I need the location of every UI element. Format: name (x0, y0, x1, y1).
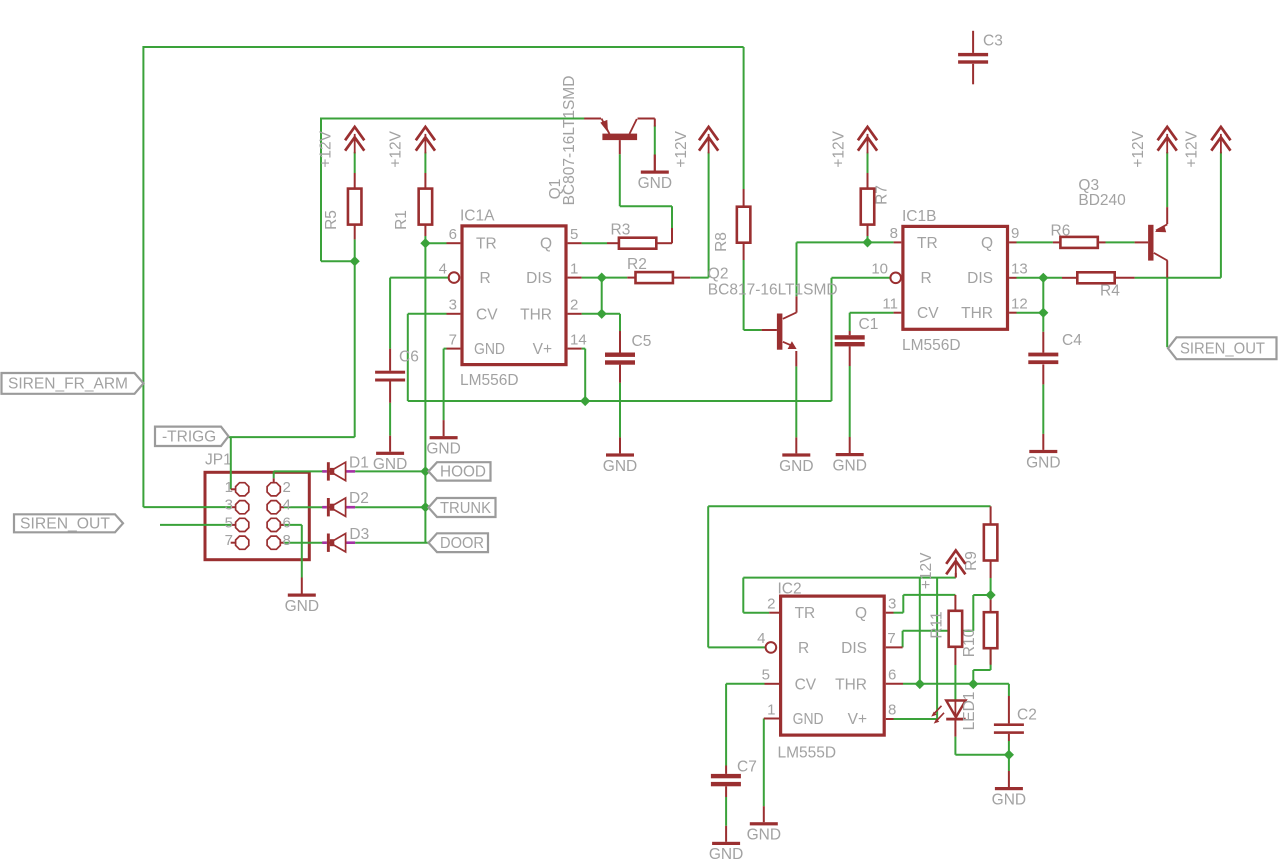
wire (1135, 241, 1149, 243)
wire (654, 119, 656, 127)
wire (743, 260, 745, 330)
svg-text:C2: C2 (1017, 707, 1037, 724)
wire (886, 612, 894, 614)
svg-text:1: 1 (767, 701, 775, 718)
wire (142, 46, 144, 507)
wire (867, 173, 869, 189)
wire (743, 612, 769, 614)
svg-text:C3: C3 (983, 33, 1003, 50)
wire (280, 506, 284, 508)
node junction (350, 256, 360, 266)
net label SIREN_OUT (1168, 337, 1277, 359)
wire (1042, 313, 1044, 332)
svg-text:LM556D: LM556D (902, 337, 961, 354)
wire (903, 630, 974, 632)
+12V supply (673, 127, 718, 168)
svg-text:BC807-16LT1SMD: BC807-16LT1SMD (561, 76, 578, 206)
svg-text:7: 7 (887, 630, 895, 647)
resistor R6 (1051, 223, 1098, 248)
resistor R9 (963, 525, 997, 571)
svg-text:V+: V+ (533, 341, 552, 358)
svg-text:R1: R1 (393, 210, 410, 230)
svg-text:GND: GND (285, 598, 319, 615)
wire (673, 277, 691, 279)
svg-text:R9: R9 (963, 551, 980, 571)
svg-text:8: 8 (890, 225, 898, 242)
wire (743, 577, 956, 579)
wire (990, 506, 992, 524)
svg-text:HOOD: HOOD (440, 464, 486, 481)
wire (355, 542, 428, 544)
wire (795, 351, 797, 366)
wire (584, 349, 586, 401)
wire (849, 331, 851, 335)
node junction (597, 309, 607, 319)
wire (954, 665, 956, 701)
ground (638, 155, 672, 192)
wire (849, 347, 851, 367)
wire (990, 649, 992, 665)
wire (1053, 241, 1061, 243)
wire (1017, 277, 1063, 279)
svg-text:6: 6 (888, 667, 896, 684)
wire (568, 277, 582, 279)
wire (990, 595, 992, 612)
wire (671, 206, 673, 229)
wire (725, 786, 727, 797)
wire (797, 241, 894, 243)
wire (320, 118, 322, 262)
svg-text:+12V: +12V (1130, 130, 1147, 167)
wire (389, 349, 391, 371)
wire (424, 173, 426, 189)
svg-text:C4: C4 (1062, 332, 1082, 349)
svg-text:IC1A: IC1A (460, 208, 495, 225)
wire (280, 542, 284, 544)
wire (743, 47, 745, 189)
wire (424, 152, 426, 173)
wire (795, 366, 797, 437)
svg-text:R2: R2 (627, 256, 647, 273)
resistor R8 (713, 207, 750, 252)
wire (1042, 332, 1044, 353)
svg-text:GND: GND (793, 711, 824, 728)
wire (232, 506, 236, 508)
svg-text:SIREN_OUT: SIREN_OUT (20, 516, 111, 533)
svg-text:GND: GND (1026, 454, 1060, 471)
wire (972, 595, 974, 631)
wire (972, 670, 974, 684)
svg-text:14: 14 (570, 332, 587, 349)
svg-text:C5: C5 (632, 333, 652, 350)
svg-text:IC1B: IC1B (902, 208, 936, 225)
wire (619, 331, 621, 353)
ground (747, 806, 781, 843)
ground (603, 437, 637, 474)
wire (1009, 312, 1016, 314)
wire (231, 542, 236, 544)
ground (779, 437, 813, 474)
wire (607, 242, 619, 244)
svg-text:DOOR: DOOR (440, 535, 484, 552)
wire (619, 383, 621, 438)
wire (584, 118, 601, 120)
svg-text:V+: V+ (848, 711, 867, 728)
svg-text:GND: GND (747, 827, 781, 844)
wire (355, 470, 428, 472)
node junction (580, 396, 590, 406)
connector JP1 box (205, 452, 309, 560)
svg-text:4: 4 (439, 261, 447, 278)
wire (281, 524, 302, 526)
wire (280, 524, 284, 526)
wire (708, 505, 990, 507)
resistor R2 (627, 256, 673, 283)
wire (954, 720, 956, 737)
wire (769, 612, 779, 614)
wire (160, 524, 232, 526)
wire (619, 314, 621, 331)
svg-text:R: R (480, 270, 491, 287)
wire (894, 718, 938, 720)
svg-text:GND: GND (638, 175, 672, 192)
wire (354, 225, 356, 240)
wire (143, 506, 231, 508)
node junction (420, 238, 430, 248)
svg-text:Q: Q (540, 236, 552, 253)
svg-text:GND: GND (779, 458, 813, 475)
svg-text:+12V: +12V (1184, 130, 1201, 167)
svg-text:R6: R6 (1051, 223, 1071, 240)
wire (273, 471, 275, 478)
wire (230, 437, 232, 489)
svg-text:SIREN_OUT: SIREN_OUT (1180, 341, 1266, 358)
wire (1042, 278, 1044, 313)
wire (354, 173, 356, 189)
wire (886, 683, 903, 685)
wire (744, 329, 762, 331)
wire (990, 649, 992, 670)
svg-text:IC2: IC2 (778, 581, 802, 598)
wire (627, 277, 636, 279)
wire (725, 797, 727, 826)
+12V supply (831, 127, 878, 168)
svg-text:+12V: +12V (673, 130, 690, 167)
svg-text:TR: TR (795, 605, 816, 622)
svg-text:3: 3 (888, 596, 896, 613)
capacitor C6 (375, 349, 419, 382)
capacitor C4 (1028, 332, 1082, 364)
wire (1106, 241, 1135, 243)
wire (708, 646, 765, 648)
svg-text:C7: C7 (737, 759, 757, 776)
svg-text:6: 6 (283, 514, 291, 531)
svg-text:LM556D: LM556D (460, 372, 519, 389)
+12V supply (1184, 127, 1231, 168)
svg-text:R3: R3 (611, 222, 631, 239)
wire (354, 261, 356, 437)
wire (764, 718, 779, 720)
wire (1220, 152, 1222, 278)
wire (990, 561, 992, 579)
svg-text:3: 3 (225, 497, 233, 514)
wire (408, 313, 447, 315)
wire (886, 718, 894, 720)
wire (568, 313, 582, 315)
resistor R4 (1077, 272, 1120, 299)
wire (726, 683, 764, 685)
+12V supply (918, 551, 965, 590)
wire (283, 506, 323, 508)
svg-text:R7: R7 (874, 185, 891, 205)
op-amp IC1B pin10 bubble (890, 273, 901, 284)
svg-text:TR: TR (476, 236, 497, 253)
wire (582, 242, 607, 244)
svg-text:3: 3 (449, 297, 457, 314)
svg-text:GND: GND (992, 791, 1026, 808)
wire (1135, 277, 1221, 279)
svg-text:R: R (921, 270, 932, 287)
wire (832, 277, 891, 279)
svg-text:6: 6 (449, 226, 457, 243)
capacitor C5 (605, 333, 651, 365)
wire (1008, 755, 1010, 771)
wire (796, 296, 798, 312)
wire (831, 278, 833, 401)
node junction (1004, 750, 1014, 760)
wire (354, 239, 356, 261)
svg-text:LED1: LED1 (961, 692, 978, 731)
svg-text:13: 13 (1011, 261, 1028, 278)
transistor Q3 (1078, 177, 1167, 261)
node junction (420, 466, 430, 476)
wire (903, 594, 955, 596)
wire (850, 312, 894, 314)
node junction (1038, 273, 1048, 283)
svg-text:1: 1 (225, 479, 233, 496)
wire (796, 242, 798, 296)
wire (954, 737, 956, 755)
ground (1026, 434, 1060, 471)
wire (1008, 696, 1010, 723)
ground (373, 436, 407, 473)
svg-text:GND: GND (474, 341, 505, 358)
wire (867, 225, 869, 236)
+12V supply (317, 127, 364, 168)
wire (444, 348, 447, 350)
diode D3 (322, 526, 369, 552)
wire (619, 140, 621, 154)
capacitor C7 (711, 759, 757, 787)
svg-text:R8: R8 (713, 232, 730, 252)
wire (656, 242, 672, 244)
capacitor C1 (835, 316, 879, 346)
wire (972, 31, 974, 53)
LED LED1 (931, 692, 978, 731)
wire (954, 595, 956, 611)
transistor Q2 (708, 266, 838, 350)
svg-text:8: 8 (283, 532, 291, 549)
wire (425, 242, 446, 244)
node junction (1038, 308, 1048, 318)
wire (1166, 152, 1168, 207)
timer IC2 (757, 581, 896, 762)
wire (390, 277, 449, 279)
svg-text:+12V: +12V (388, 130, 405, 167)
wire (321, 260, 355, 262)
wire (765, 683, 780, 685)
wire (849, 366, 851, 437)
ground (426, 420, 460, 457)
wire (407, 314, 409, 401)
diode D1 (322, 454, 369, 480)
wire (972, 64, 974, 85)
wire (743, 243, 745, 260)
wire (849, 313, 851, 331)
svg-text:1: 1 (570, 261, 578, 278)
wire (902, 631, 904, 648)
wire (1166, 278, 1168, 348)
svg-text:8: 8 (888, 701, 896, 718)
svg-text:GND: GND (426, 441, 460, 458)
wire (707, 506, 709, 647)
svg-text:+12V: +12V (831, 130, 848, 167)
svg-text:CV: CV (917, 305, 939, 322)
svg-text:LM555D: LM555D (778, 745, 837, 762)
wire (894, 241, 902, 243)
svg-text:C6: C6 (399, 349, 419, 366)
svg-text:12: 12 (1011, 296, 1028, 313)
svg-text:BC817-16LT1SMD: BC817-16LT1SMD (708, 282, 838, 299)
svg-text:Q2: Q2 (708, 266, 729, 283)
svg-text:R: R (798, 640, 809, 657)
svg-text:JP1: JP1 (205, 452, 232, 469)
wire (601, 278, 603, 314)
wire (443, 349, 445, 421)
wire (283, 542, 323, 544)
resistor R1 (393, 189, 432, 230)
wire (743, 189, 745, 207)
resistor R11 (929, 611, 963, 647)
svg-text:R5: R5 (323, 210, 340, 230)
wire (867, 152, 869, 173)
wire (143, 46, 743, 48)
wire (232, 524, 236, 526)
wire (582, 313, 620, 315)
ground (832, 437, 866, 474)
svg-text:10: 10 (871, 261, 888, 278)
svg-text:2: 2 (767, 596, 775, 613)
svg-text:Q: Q (855, 605, 867, 622)
wire (424, 236, 426, 243)
+12V supply (388, 127, 435, 168)
wire (886, 646, 903, 648)
wire (389, 382, 391, 403)
wire (1008, 684, 1010, 696)
wire (354, 152, 356, 173)
wire (424, 243, 426, 543)
wire (955, 573, 957, 578)
svg-text:D1: D1 (349, 454, 369, 471)
wire (1009, 241, 1016, 243)
wire (690, 277, 708, 279)
net label DOOR (429, 533, 489, 552)
svg-text:BD240: BD240 (1078, 192, 1126, 209)
wire (762, 329, 777, 331)
svg-text:4: 4 (283, 497, 291, 514)
svg-text:R4: R4 (1100, 283, 1120, 300)
svg-text:TRUNK: TRUNK (440, 500, 492, 517)
wire (1042, 364, 1044, 384)
svg-text:-TRIGG: -TRIGG (162, 429, 216, 446)
wire (671, 228, 673, 243)
svg-text:D3: D3 (349, 526, 369, 543)
wire (919, 578, 921, 684)
wire (1017, 241, 1053, 243)
ground (709, 826, 743, 863)
ground (285, 578, 319, 615)
svg-text:GND: GND (373, 456, 407, 473)
ground (992, 771, 1026, 808)
wire (582, 348, 586, 350)
wire (654, 155, 656, 171)
svg-text:5: 5 (762, 667, 770, 684)
wire (936, 578, 938, 719)
wire (1017, 312, 1044, 314)
wire (954, 648, 956, 666)
op-amp IC1A (439, 208, 587, 390)
wire (568, 242, 582, 244)
svg-text:+12V: +12V (918, 552, 935, 589)
wire (229, 436, 355, 438)
wire (582, 277, 628, 279)
svg-text:2: 2 (283, 479, 291, 496)
svg-text:7: 7 (225, 532, 233, 549)
capacitor C2 (994, 707, 1037, 734)
svg-text:CV: CV (476, 306, 498, 323)
op-amp IC1B (871, 208, 1027, 354)
op-amp IC1A pin4 bubble (449, 272, 460, 283)
wire (1115, 277, 1135, 279)
wire (708, 152, 710, 278)
svg-text:C1: C1 (859, 316, 879, 333)
wire (742, 578, 744, 613)
wire (867, 236, 869, 242)
wire (1008, 741, 1010, 755)
+12V supply (1130, 127, 1177, 168)
resistor R5 (323, 189, 361, 230)
svg-text:DIS: DIS (967, 270, 993, 287)
wire (1008, 734, 1010, 741)
wire (654, 126, 656, 155)
wire (1166, 261, 1168, 278)
net label HOOD (429, 462, 491, 481)
node junction (597, 273, 607, 283)
svg-text:SIREN_FR_ARM: SIREN_FR_ARM (8, 376, 128, 393)
wire (763, 719, 765, 807)
wire (619, 154, 621, 206)
wire (447, 313, 461, 315)
wire (447, 348, 461, 350)
wire (902, 595, 904, 613)
svg-text:GND: GND (832, 457, 866, 474)
node junction (986, 590, 996, 600)
capacitor C3 (958, 33, 1003, 64)
svg-text:R10: R10 (961, 628, 978, 657)
diode D2 (322, 490, 369, 516)
wire (447, 242, 461, 244)
timer IC2 pin4 bubble (766, 642, 777, 653)
